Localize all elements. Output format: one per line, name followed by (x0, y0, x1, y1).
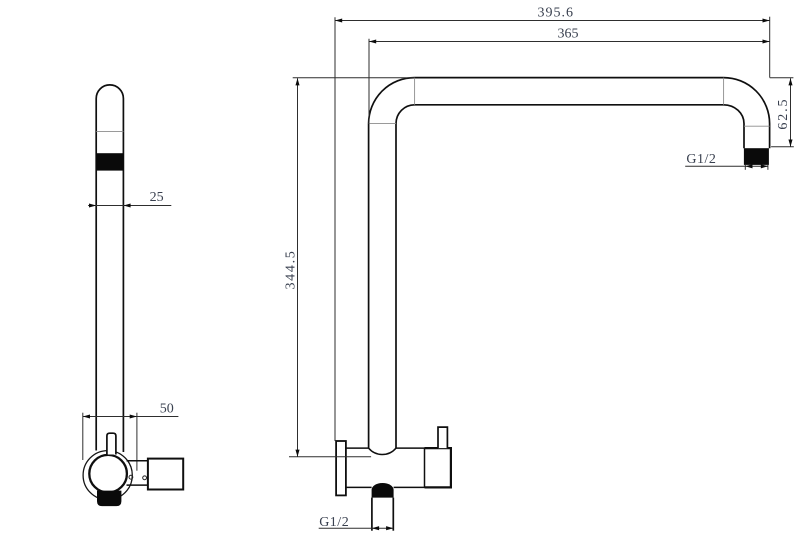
left bend tangent line vertical (414, 78, 416, 105)
pipe inner contour (396, 105, 744, 448)
wall flange plate (right view) (336, 441, 346, 495)
dimension 50 extension lines (83, 413, 137, 471)
dimension 25 line (88, 203, 171, 207)
pipe outer contour (369, 78, 770, 449)
body bottom edge right segment (394, 486, 425, 488)
svg-text:G1/2: G1/2 (686, 152, 716, 167)
ext line right shared (769, 17, 771, 78)
G1/2 bottom leader line (319, 526, 394, 530)
svg-text:G1/2: G1/2 (319, 515, 349, 530)
svg-text:344.5: 344.5 (284, 250, 299, 290)
body bottom edge left segment (346, 486, 372, 488)
dimension 50 line (83, 414, 179, 418)
riser bottom U curve (369, 448, 396, 454)
side plate top edge (127, 460, 149, 462)
dimension 50 text (160, 401, 174, 416)
dimension 395.6 text (538, 5, 575, 20)
dimension 62.5 line (788, 78, 792, 147)
body top edge far right segment (447, 447, 451, 449)
bottom thread stub left line (371, 498, 373, 531)
valve right cap (425, 448, 451, 487)
ext line top at pipe level (293, 77, 414, 79)
pipe cap arc (96, 85, 123, 99)
fitting witness line left (744, 165, 746, 170)
ext line bottom (289, 456, 371, 458)
svg-text:365: 365 (558, 27, 579, 42)
ext line top right (770, 77, 794, 79)
svg-text:62.5: 62.5 (776, 98, 791, 130)
right stub joint line (744, 125, 770, 127)
wall flange outer circle (83, 451, 132, 500)
black bottom connector (97, 491, 121, 507)
valve separator line (424, 448, 426, 487)
dimension 62.5 text (776, 98, 791, 130)
black dome nut (372, 483, 394, 498)
wall flange inner circle (89, 455, 127, 493)
black band (96, 153, 123, 170)
left bend tangent line horizontal (369, 123, 396, 125)
ext line bottom right (771, 146, 794, 148)
svg-text:50: 50 (160, 401, 174, 416)
valve top stub (438, 427, 447, 448)
plate hole 2 (143, 476, 147, 480)
dimension 25 text (150, 190, 164, 205)
G1/2 bottom label (319, 515, 349, 530)
ext line 395.6 left (334, 17, 336, 441)
pipe left wall (95, 99, 97, 451)
dimension 365 line (369, 39, 770, 43)
body top edge left segment (346, 447, 369, 449)
dimension 395.6 line (335, 18, 770, 22)
black threaded fitting right (744, 148, 769, 165)
ext line 365 left (368, 39, 370, 124)
dimension 365 text (558, 27, 579, 42)
G1/2 top label (686, 152, 716, 167)
top tab on flange (107, 433, 116, 454)
plate hole 1 (129, 475, 133, 479)
right bend tangent line vertical (723, 78, 725, 105)
side plate bottom edge (127, 484, 149, 486)
svg-text:25: 25 (150, 190, 164, 205)
pipe right wall (122, 99, 124, 453)
fitting witness line right (767, 165, 769, 170)
dimension 344.5 text (284, 250, 299, 290)
G1/2 top leader line (685, 164, 768, 168)
body top edge right segment (396, 447, 438, 449)
bottom thread stub right line (392, 498, 394, 531)
joint line (96, 131, 123, 133)
dimension 344.5 line (295, 78, 299, 457)
right box fitting (148, 459, 183, 490)
svg-text:395.6: 395.6 (538, 5, 575, 20)
